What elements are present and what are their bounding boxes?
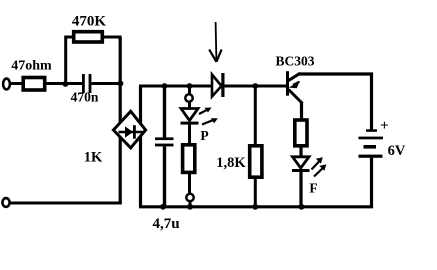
- wire bottom left rail: [10, 202, 122, 205]
- battery B1 plates: [359, 129, 384, 158]
- bridge inner diode: [119, 125, 144, 139]
- P bottom circle: [186, 194, 193, 201]
- capacitor 4,7u plates: [155, 137, 174, 140]
- node E junction dot (1,8K top): [252, 83, 258, 89]
- wire cap to node B: [91, 82, 122, 85]
- svg-text:470K: 470K: [72, 14, 107, 30]
- node C junction dot (4,7u top): [162, 83, 168, 89]
- node H junction dot (1,8K bottom): [252, 204, 258, 210]
- LED F cathode bar: [292, 169, 310, 172]
- wire battery to bottom rail: [370, 158, 373, 208]
- wire J1 to R 47ohm: [10, 82, 22, 85]
- resistor 470K: [74, 32, 103, 42]
- node B junction dot: [118, 81, 124, 87]
- svg-text:P: P: [200, 128, 208, 143]
- terminal J1 (top left input): [3, 79, 10, 90]
- wire LED to resistor: [188, 125, 191, 144]
- wire circle to LED: [188, 102, 191, 109]
- wire 470K right leg: [103, 37, 121, 40]
- wire 470K left leg: [66, 37, 72, 84]
- capacitor 4,7u branch wire lower: [163, 146, 166, 207]
- P arrows: [199, 108, 218, 125]
- capacitor 4,7u branch wire upper: [163, 86, 166, 138]
- wire 47ohm to node A: [45, 82, 82, 85]
- Q1 emitter arrow (PNP): [289, 81, 300, 88]
- svg-text:6V: 6V: [388, 143, 406, 159]
- bridge rectifier 1K diamond: [113, 111, 145, 148]
- capacitor 470n left plate: [82, 74, 85, 93]
- P top circle: [185, 94, 192, 101]
- node A junction dot: [63, 81, 69, 87]
- svg-text:+: +: [380, 118, 389, 134]
- wire emitter to resistor F: [300, 103, 303, 120]
- svg-text:4,7u: 4,7u: [152, 216, 179, 232]
- wire resistor to LED F: [299, 146, 302, 157]
- svg-text:1K: 1K: [84, 150, 103, 166]
- Q1 emitter line: [289, 90, 303, 104]
- wire bottom rail: [139, 205, 373, 208]
- svg-text:1,8K: 1,8K: [216, 155, 246, 171]
- diode D1: [212, 73, 225, 97]
- wire 1,8K to rail: [254, 177, 257, 207]
- wire top mid rail: [139, 85, 288, 88]
- resistor F branch: [295, 120, 307, 146]
- capacitor 470n right plate: [89, 74, 92, 93]
- node D junction dot (P top): [187, 83, 193, 89]
- resistor 1,8K: [250, 146, 262, 177]
- resistor 1,8K branch wire: [254, 86, 257, 145]
- resistor 47ohm: [23, 78, 45, 91]
- resistor P branch: [183, 145, 195, 173]
- svg-text:F: F: [309, 181, 317, 196]
- node I junction dot (F bottom): [299, 204, 305, 210]
- photodiode P cathode bar: [181, 122, 199, 125]
- photodiode P triangle: [181, 109, 198, 121]
- svg-text:47ohm: 47ohm: [11, 59, 52, 74]
- wire resistor to bottom circle: [188, 172, 191, 193]
- transistor Q1 BC303 base bar: [286, 71, 289, 96]
- Q1 collector line: [289, 73, 301, 80]
- photodiode P branch wire: [188, 86, 191, 95]
- light arrow pointing down at diode: [209, 22, 221, 62]
- svg-text:BC303: BC303: [275, 54, 314, 69]
- wire vertical right through bridge: [139, 86, 142, 207]
- wire vertical left through bridge: [119, 37, 122, 203]
- node G junction dot (P bottom): [187, 204, 193, 210]
- svg-text:470n: 470n: [71, 90, 99, 105]
- node F junction dot (4,7u bottom): [160, 204, 166, 210]
- wire top right rail: [299, 74, 372, 131]
- F arrows: [312, 157, 327, 176]
- terminal J2 (bottom left): [2, 198, 9, 207]
- LED F triangle: [293, 157, 310, 168]
- wire LED F to rail: [299, 172, 302, 207]
- wire circle to rail: [189, 201, 192, 207]
